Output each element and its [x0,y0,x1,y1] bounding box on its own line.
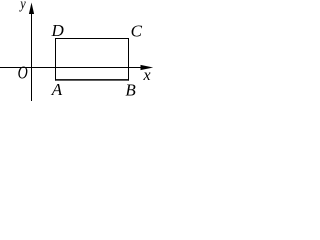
x-axis arrowhead [141,65,154,70]
rectangle ABCD: side DA (left) [55,38,57,81]
svg-text:O: O [18,63,28,83]
svg-text:x: x [143,67,151,84]
y-axis [31,8,33,101]
rectangle side CB (right) [128,38,130,81]
y-axis arrowhead [29,3,34,15]
svg-text:D: D [51,21,65,40]
svg-text:B: B [125,80,136,99]
rectangle side AB (bottom) [55,79,129,81]
svg-text:A: A [51,80,63,99]
svg-text:y: y [18,0,25,12]
x-axis [0,67,146,69]
svg-text:C: C [131,22,143,41]
rectangle side DC (top) [55,38,129,40]
